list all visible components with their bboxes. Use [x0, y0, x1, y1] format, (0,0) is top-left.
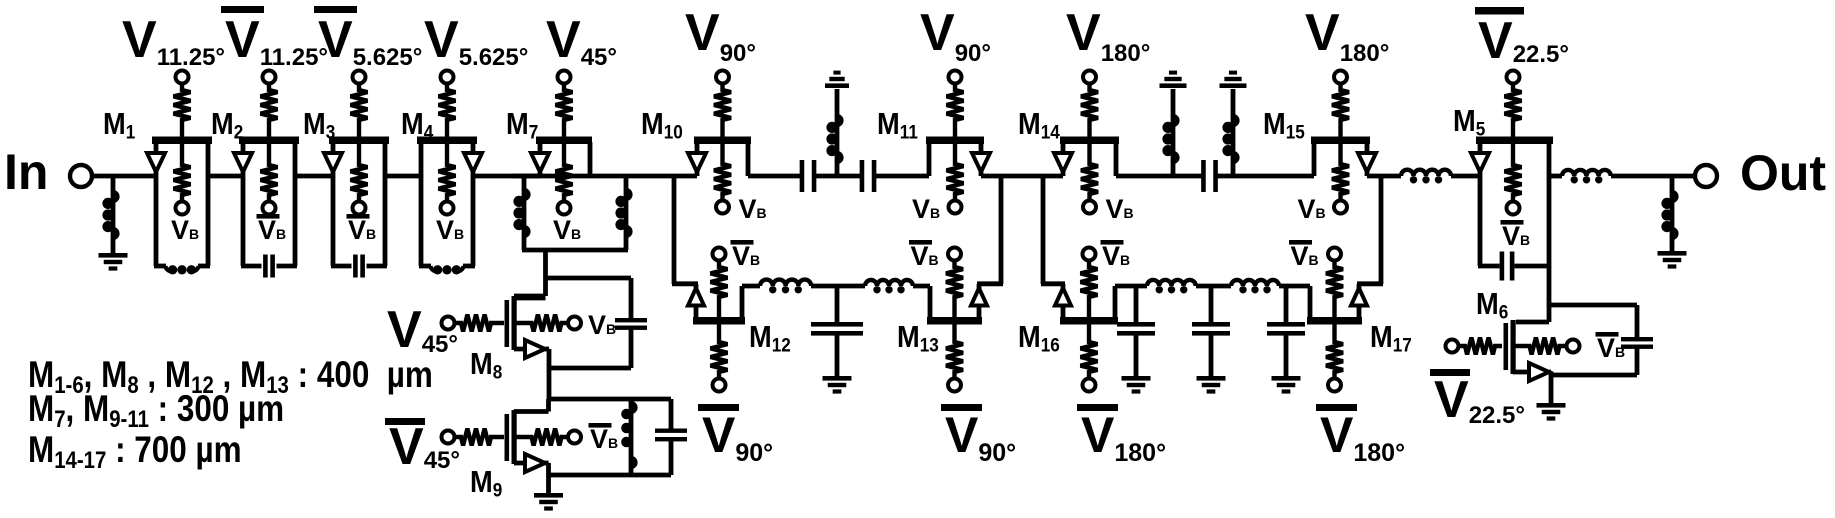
transistor M4 gate bar	[417, 137, 477, 145]
transistor M14 gate bar	[1060, 137, 1119, 145]
wire M15 to M5	[1367, 174, 1401, 179]
transistor M16 arrow	[1055, 288, 1071, 306]
wire M16 tap from main line	[1041, 176, 1065, 319]
transistor M13 other arm	[928, 286, 933, 319]
resistor M12 bias	[711, 261, 728, 318]
terminal M8 gate	[442, 317, 455, 330]
resistor M14 control	[1081, 84, 1098, 137]
label M11 VB	[912, 194, 940, 224]
label M6	[1476, 287, 1508, 322]
label V 45 top	[546, 11, 617, 71]
label V 180 second	[1305, 4, 1389, 67]
terminal M16 bias	[1083, 248, 1096, 261]
transistor M17 arrow	[1351, 288, 1367, 306]
capacitor M5 bottom	[1500, 252, 1515, 281]
label M5 VB	[1501, 220, 1531, 251]
wire M5 to out	[1549, 174, 1562, 179]
transistor M7 arrow	[531, 153, 549, 172]
transistor M6 source	[1513, 372, 1551, 375]
wire M5 to M6 drain	[1516, 266, 1549, 322]
terminal M13 control	[948, 379, 961, 392]
label M7	[506, 107, 538, 142]
resistor M13 control	[946, 325, 963, 379]
label Vbar 5.625	[314, 6, 422, 71]
label M16 VB	[1101, 240, 1131, 271]
label Vbar 45 M9	[385, 418, 460, 476]
resistor M17 control	[1326, 325, 1343, 379]
terminal M11 control	[949, 71, 962, 84]
terminal M15 bias	[1334, 201, 1347, 214]
transistor M5 gate bar	[1476, 137, 1553, 145]
wire cap to cap	[815, 174, 861, 179]
capacitor series 2	[860, 160, 877, 192]
wire coil to M5	[1451, 174, 1480, 179]
inductor rail 4	[1231, 280, 1279, 293]
capacitor M6	[1549, 305, 1653, 375]
inductor series out	[1562, 170, 1611, 184]
output terminal	[1695, 165, 1717, 187]
label M8	[470, 347, 502, 382]
terminal M2 control	[263, 71, 276, 84]
terminal M4 bias	[441, 202, 454, 215]
transistor M13 gate bar	[927, 317, 982, 325]
ground cap 1136	[1122, 376, 1151, 394]
capacitor shunt 1136	[1117, 286, 1155, 377]
wire to out terminal	[1611, 174, 1695, 179]
inductor M7 right	[615, 176, 630, 250]
label V 90 second	[920, 4, 991, 67]
label M4 VB	[436, 215, 464, 245]
label Vbar 22.5 top	[1475, 7, 1569, 70]
label M10 VB	[739, 194, 767, 224]
node In label	[4, 144, 48, 200]
transistor M6	[1504, 320, 1516, 374]
resistor M16 bias	[1081, 261, 1098, 318]
label M9 VB	[589, 423, 619, 454]
terminal M15 control	[1334, 71, 1347, 84]
terminal M7 bias	[558, 202, 571, 215]
inductor output shunt	[1661, 176, 1676, 252]
terminal M5 control	[1507, 71, 1520, 84]
svg-text:M7, M9-11 : 300 µm: M7, M9-11 : 300 µm	[28, 389, 284, 433]
terminal M4 control	[441, 71, 454, 84]
terminal M5 bias	[1507, 202, 1520, 215]
resistor M7 control	[556, 84, 573, 137]
terminal M2 bias	[263, 202, 276, 215]
label M10	[641, 107, 683, 142]
transistor M9	[505, 399, 549, 464]
label M15 VB	[1298, 194, 1326, 224]
terminal M6 bias	[1567, 340, 1580, 353]
terminal M3 control	[353, 71, 366, 84]
transistor M11 arms	[929, 142, 981, 176]
ground mid cap	[823, 376, 852, 394]
label Vbar 180° M16	[1077, 404, 1166, 467]
terminal M9 bias	[568, 431, 581, 444]
label Vbar 180° M17	[1316, 404, 1405, 467]
transistor M8	[505, 296, 546, 350]
wire M1-M2	[208, 174, 243, 179]
transistor M8 source	[514, 349, 549, 399]
resistor M14 bias	[1081, 144, 1098, 201]
transistor M3 arrow	[324, 153, 342, 172]
resistor M4 gate bias	[439, 144, 456, 202]
label M14	[1018, 107, 1061, 142]
transistor M2 body	[241, 142, 297, 266]
resistor M7 bias	[556, 144, 573, 202]
input terminal	[70, 165, 92, 187]
wire M7-M10 with M12 tap	[630, 174, 697, 179]
resistor M2 control	[261, 84, 278, 137]
transistor M9 source	[514, 463, 549, 475]
wire cap to M11	[875, 174, 929, 179]
resistor M13 bias	[946, 261, 963, 318]
resistor M10 control	[714, 84, 731, 137]
resistor M11 bias	[947, 144, 964, 201]
wire input to M1	[92, 174, 156, 179]
terminal M6 gate	[1446, 340, 1459, 353]
resistor M17 bias	[1326, 261, 1343, 318]
capacitor series 1	[800, 160, 817, 192]
wire cap to M15	[1216, 174, 1314, 179]
transistor M13 arrow	[971, 288, 987, 306]
label M7 VB	[553, 215, 581, 245]
label M6 VB	[1596, 332, 1626, 363]
wire M14 to cap	[1116, 174, 1203, 179]
terminal M17 control	[1328, 379, 1341, 392]
terminal M10 control	[716, 71, 729, 84]
text sizes line 2	[28, 389, 284, 433]
resistor M6 bias	[1516, 338, 1567, 355]
text sizes line 3	[28, 430, 242, 474]
transistor M10 gate bar	[694, 137, 751, 145]
ground up 3	[1220, 71, 1247, 88]
transistor M2 gate bar	[239, 137, 299, 145]
label M4	[401, 107, 434, 142]
label M5	[1453, 104, 1485, 139]
node Out label	[1740, 145, 1826, 201]
capacitor series 3	[1201, 160, 1218, 192]
inductor shunt up 2	[1162, 89, 1177, 176]
transistor M6 source arrow	[1529, 363, 1549, 381]
capacitor M9 tank	[549, 399, 688, 475]
transistor M17 other arm	[1308, 286, 1313, 319]
inductor M4 bottom	[431, 265, 464, 274]
transistor M11 arrow	[972, 153, 990, 172]
resistor M12 control	[711, 325, 728, 379]
transistor M9 source arrow	[525, 454, 545, 472]
label M12 VB	[731, 240, 761, 271]
label M8 VB	[588, 310, 616, 340]
inductor M9 tank	[621, 399, 635, 475]
resistor M6 gate	[1459, 338, 1503, 355]
label M15	[1263, 107, 1305, 142]
wire M12 tap from main line	[672, 176, 698, 319]
ground up 2	[1160, 71, 1187, 88]
wire rail M12-M13	[742, 284, 930, 289]
ground input shunt	[99, 253, 128, 271]
label V 11.25	[122, 11, 225, 71]
transistor M3 gate bar	[329, 137, 389, 145]
label Vbar 22.5 M6	[1430, 369, 1525, 429]
resistor M3 gate bias	[351, 144, 368, 202]
wire M11-M14 with taps	[981, 174, 1063, 179]
label V 5.625	[424, 11, 528, 71]
transistor M5 arrow	[1471, 153, 1489, 172]
terminal M17 bias	[1328, 248, 1341, 261]
terminal M14 bias	[1083, 201, 1096, 214]
ground M9 source	[534, 475, 563, 511]
wire M3-M4	[385, 174, 421, 179]
transistor M16 gate bar	[1060, 317, 1118, 325]
transistor M4 arrow	[464, 153, 482, 172]
terminal M12 bias	[713, 248, 726, 261]
label M3	[303, 107, 335, 142]
transistor M15 arms	[1314, 142, 1367, 176]
resistor M16 control	[1081, 325, 1098, 379]
terminal M8 bias	[568, 317, 581, 330]
label V 90 first	[685, 4, 756, 67]
transistor M8 source arrow	[525, 340, 545, 358]
transistor M11 gate bar	[926, 137, 984, 145]
label Vbar 90° M12	[698, 404, 773, 467]
terminal M16 control	[1083, 379, 1096, 392]
terminal M13 bias	[948, 248, 961, 261]
label M17	[1370, 320, 1412, 355]
transistor M14 arrow	[1054, 153, 1072, 172]
inductor rail 2	[865, 280, 913, 293]
label M13 VB	[909, 240, 939, 271]
ground up 1	[825, 71, 849, 88]
resistor M15 control	[1332, 84, 1349, 137]
capacitor shunt 1211	[1192, 286, 1230, 377]
label Vbar 90° M13	[941, 404, 1016, 467]
resistor M9 bias	[517, 429, 569, 446]
resistor M1 control	[174, 84, 191, 137]
transistor M10 arms	[697, 142, 748, 176]
transistor M14 arms	[1063, 142, 1116, 176]
ground output	[1658, 251, 1687, 269]
resistor M2 gate bias	[261, 144, 278, 202]
terminal M1 control	[176, 71, 189, 84]
ground cap 1286	[1272, 376, 1301, 394]
transistor M4 body	[419, 142, 475, 266]
resistor M9 gate	[455, 429, 505, 446]
transistor M16 other arm	[1113, 286, 1118, 319]
label M9	[470, 465, 502, 500]
transistor M1 body	[154, 142, 210, 266]
transistor M7 gate bar	[536, 137, 592, 145]
transistor M1 arrow	[147, 153, 165, 172]
label M2 VB	[257, 214, 287, 245]
inductor rail 1	[760, 280, 811, 294]
terminal M14 control	[1083, 71, 1096, 84]
transistor M1 gate bar	[152, 137, 212, 145]
wire M4-M7	[473, 174, 540, 179]
wire M7 span	[513, 174, 630, 179]
ground M6 source	[1537, 375, 1566, 421]
resistor M15 bias	[1332, 144, 1349, 201]
label M14 VB	[1106, 194, 1134, 224]
transistor M17 gate bar	[1307, 317, 1362, 325]
capacitor M2 bottom	[263, 255, 275, 278]
capacitor M3 bottom	[353, 255, 365, 278]
transistor M10 arrow	[688, 153, 706, 172]
inductor rail 3	[1147, 280, 1196, 294]
terminal M3 bias	[353, 202, 366, 215]
wire M13 tap from main line	[977, 176, 1003, 319]
wire M2-M3	[295, 174, 333, 179]
resistor M1 gate bias	[174, 144, 191, 202]
label M17 VB	[1289, 240, 1319, 271]
capacitor shunt mid	[811, 286, 863, 377]
label V 45 M8	[387, 301, 458, 359]
label M16	[1018, 320, 1060, 355]
label M12	[749, 320, 791, 355]
terminal M1 bias	[176, 202, 189, 215]
wire M7 bottom rail	[522, 248, 628, 253]
resistor M8 bias	[517, 315, 569, 332]
transistor M12 gate bar	[693, 317, 745, 325]
inductor M7 left	[513, 176, 528, 250]
inductor input shunt	[102, 176, 117, 254]
label M1	[103, 107, 135, 142]
transistor M3 body	[331, 142, 387, 266]
label Vbar 11.25	[221, 6, 328, 71]
resistor M5 bias	[1505, 144, 1522, 202]
transistor M15 gate bar	[1311, 137, 1370, 145]
label M13	[897, 320, 939, 355]
resistor M3 control	[351, 84, 368, 137]
transistor M2 arrow	[234, 153, 252, 172]
wire M10 to cap	[748, 174, 801, 179]
label M11	[877, 107, 918, 142]
transistor M12 other arm	[740, 286, 745, 319]
transistor M12 arrow	[688, 288, 704, 306]
inductor shunt up 3	[1222, 89, 1237, 176]
capacitor shunt 1286	[1267, 286, 1305, 377]
svg-text:In: In	[4, 144, 48, 200]
text sizes line 1	[28, 355, 433, 399]
label M3 VB	[347, 214, 377, 245]
label M1 VB	[171, 215, 199, 245]
inductor series mid	[1401, 170, 1451, 184]
transistor M7 arms	[540, 142, 590, 176]
wire M17 tap from main line	[1357, 176, 1383, 319]
terminal M12 control	[713, 379, 726, 392]
resistor M10 bias	[714, 144, 731, 201]
transistor M5 body	[1478, 142, 1551, 266]
inductor shunt up 1	[826, 89, 841, 176]
resistor M4 control	[439, 84, 456, 137]
wire rail M16-M17	[1115, 284, 1310, 289]
transistor M15 arrow	[1358, 153, 1376, 172]
resistor M8 gate	[455, 315, 505, 332]
terminal M7 control	[558, 71, 571, 84]
wire rail to M8 drain	[514, 250, 546, 296]
terminal M11 bias	[949, 201, 962, 214]
inductor M1 bottom	[166, 265, 199, 274]
resistor M11 control	[947, 84, 964, 137]
ground cap 1211	[1197, 376, 1226, 394]
resistor M5 control	[1505, 84, 1522, 137]
terminal M9 gate	[442, 431, 455, 444]
capacitor M8 drain-source	[546, 278, 648, 368]
label M2	[211, 107, 243, 142]
svg-text:Out: Out	[1740, 145, 1826, 201]
label V 180 first	[1066, 4, 1150, 67]
terminal M10 bias	[716, 201, 729, 214]
